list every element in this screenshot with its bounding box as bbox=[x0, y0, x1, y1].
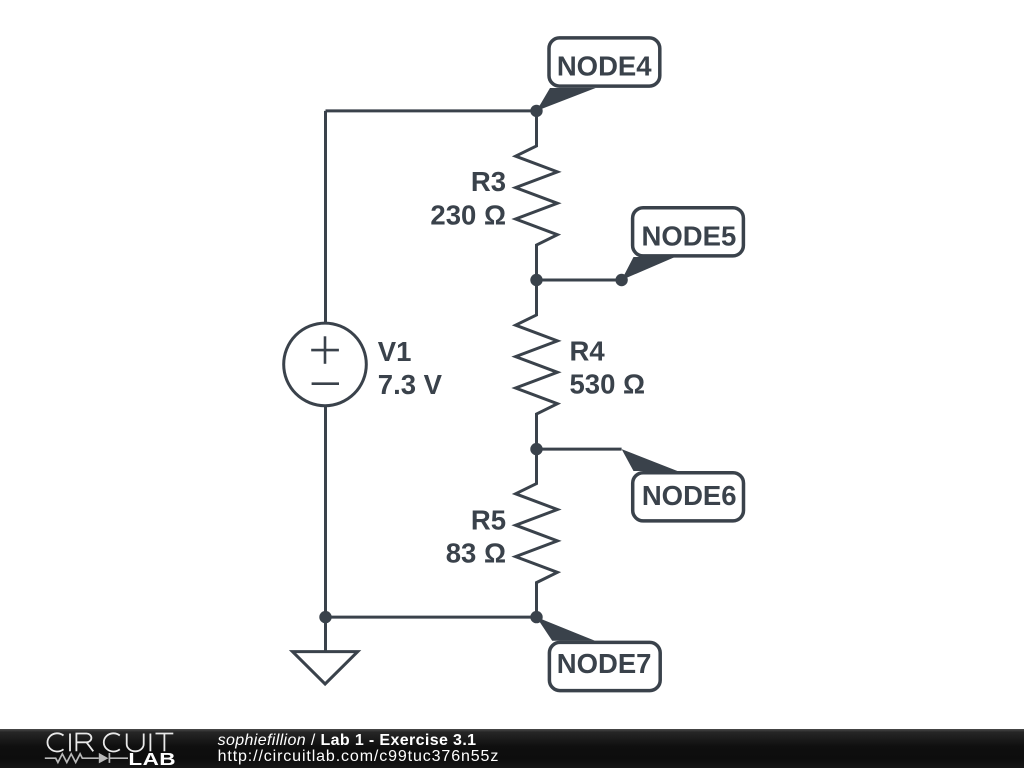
svg-text:83 Ω: 83 Ω bbox=[446, 537, 506, 568]
svg-text:V1: V1 bbox=[378, 336, 412, 367]
svg-text:530 Ω: 530 Ω bbox=[570, 369, 646, 400]
node E junction dot bottom left bbox=[319, 611, 331, 623]
wire top horizontal bbox=[326, 109, 537, 112]
svg-text:LAB: LAB bbox=[128, 750, 176, 768]
node D junction dot bottom right bbox=[530, 611, 542, 623]
svg-text:NODE7: NODE7 bbox=[557, 648, 652, 679]
node label NODE6 bbox=[633, 473, 744, 521]
svg-text:230 Ω: 230 Ω bbox=[430, 199, 506, 230]
resistor R5 bbox=[516, 449, 558, 617]
wire node5 stub bbox=[537, 279, 622, 282]
node label NODE7 bbox=[549, 642, 660, 690]
callout tail NODE6 bbox=[622, 449, 678, 471]
ground bbox=[324, 617, 327, 652]
wire left lower vertical bbox=[324, 406, 327, 618]
resistor R4 bbox=[516, 280, 558, 449]
voltage source V1 bbox=[284, 323, 367, 406]
svg-text:sophiefillion / Lab 1 - Exerci: sophiefillion / Lab 1 - Exercise 3.1 bbox=[218, 732, 477, 749]
svg-text:R4: R4 bbox=[570, 336, 606, 367]
wire bottom horizontal bbox=[326, 616, 537, 619]
callout tail NODE7 bbox=[537, 617, 596, 641]
callout tail NODE4 bbox=[537, 88, 596, 111]
svg-text:NODE4: NODE4 bbox=[557, 51, 652, 82]
wire node6 stub bbox=[537, 448, 622, 451]
svg-text:R5: R5 bbox=[471, 504, 506, 535]
node label NODE5 bbox=[633, 208, 744, 256]
node C junction dot R4/R5 bbox=[530, 443, 542, 455]
logo CIRCUIT wordmark bbox=[47, 733, 173, 751]
node B stub end dot bbox=[615, 274, 627, 286]
svg-text:NODE5: NODE5 bbox=[642, 220, 737, 251]
logo resistor-diode doodle bbox=[45, 753, 128, 763]
node B junction dot R3/R4 bbox=[530, 274, 542, 286]
svg-text:http://circuitlab.com/c99tuc37: http://circuitlab.com/c99tuc376n55z bbox=[218, 748, 500, 765]
callout tail NODE5 bbox=[622, 257, 675, 280]
resistor R3 bbox=[516, 111, 558, 280]
svg-text:R3: R3 bbox=[471, 166, 506, 197]
svg-text:7.3 V: 7.3 V bbox=[378, 369, 443, 400]
wire left upper vertical bbox=[324, 111, 327, 324]
node A junction dot top bbox=[530, 105, 542, 117]
svg-text:NODE6: NODE6 bbox=[642, 480, 737, 511]
node label NODE4 bbox=[549, 38, 660, 86]
